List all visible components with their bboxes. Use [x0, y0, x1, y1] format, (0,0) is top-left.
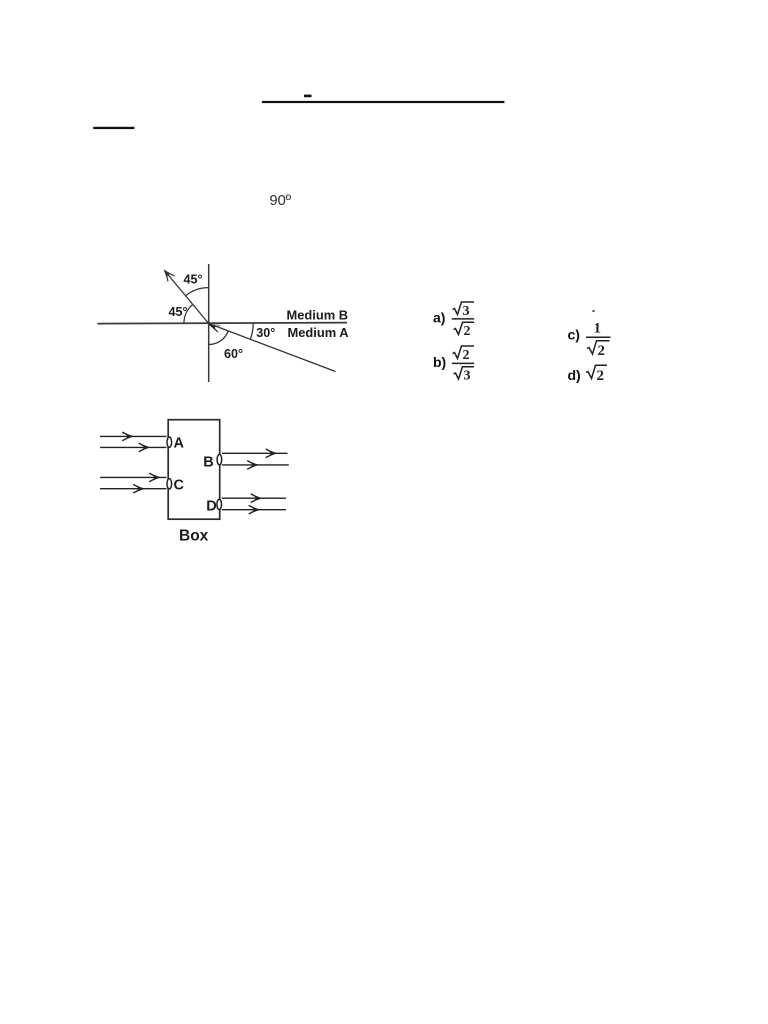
svg-text:30°: 30°: [256, 326, 275, 340]
svg-text:d): d): [568, 367, 581, 383]
normal (vertical line): [208, 264, 210, 382]
output ray 4 from lens D: [222, 509, 286, 511]
svg-text:2: 2: [463, 348, 470, 363]
input ray 4 to lens C: [100, 488, 167, 490]
svg-text:3: 3: [464, 369, 471, 384]
long horizontal rule (title underline): [262, 101, 505, 103]
refracted ray (up-left, with arrow tip): [165, 271, 209, 324]
arrowhead input ray 3: [149, 473, 161, 482]
option d value: sqrt2: [586, 365, 607, 378]
output ray 3 from lens D: [222, 497, 286, 499]
svg-text:3: 3: [463, 304, 470, 319]
option a fraction: sqrt3 over sqrt2: [452, 302, 474, 335]
svg-text:60°: 60°: [224, 347, 243, 361]
box rectangle: [168, 420, 220, 520]
svg-text:1: 1: [594, 320, 602, 336]
incident ray (from lower right): [209, 324, 336, 372]
svg-text:45°: 45°: [169, 305, 188, 319]
svg-text:90º: 90º: [270, 193, 292, 209]
lens D: [217, 499, 222, 509]
input ray 3 to lens C: [100, 476, 167, 478]
svg-text:2: 2: [597, 368, 605, 384]
svg-text:Box: Box: [179, 528, 209, 545]
lens B: [217, 454, 222, 464]
svg-text:2: 2: [598, 343, 606, 359]
svg-text:Medium B: Medium B: [287, 307, 349, 322]
arrowhead on incident ray pointing at intersection: [208, 324, 218, 330]
input ray 1 to lens A: [100, 435, 167, 437]
arrowhead output ray 2: [247, 461, 259, 470]
short horizontal rule (left): [93, 127, 134, 129]
svg-text:Medium A: Medium A: [288, 325, 349, 340]
arrowhead of refracted ray: [160, 267, 174, 282]
arrowhead input ray 2: [139, 443, 151, 452]
lens A: [167, 437, 172, 447]
interface (horizontal line): [98, 323, 348, 324]
arc 45 top (ray to normal): [186, 288, 209, 296]
svg-text:c): c): [568, 327, 580, 343]
arc 30 (horizontal right to ray): [250, 324, 253, 340]
arc 45 left (horizontal to ray): [184, 304, 193, 323]
short dash (top, above title rule): [304, 95, 312, 98]
svg-text:b): b): [433, 354, 446, 370]
output ray 2 from lens B: [222, 464, 289, 466]
arrowhead input ray 4: [133, 484, 145, 493]
svg-text:45°: 45°: [184, 273, 203, 287]
arrowhead output ray 4: [249, 505, 261, 514]
svg-text:D: D: [206, 499, 216, 515]
arc 60 (normal down to ray): [209, 331, 229, 345]
svg-text:2: 2: [464, 324, 471, 339]
svg-text:B: B: [203, 454, 213, 470]
svg-text:A: A: [174, 435, 185, 451]
arrowhead output ray 1: [266, 449, 278, 458]
arrowhead output ray 3: [251, 494, 263, 503]
option b fraction: sqrt2 over sqrt3: [452, 346, 474, 379]
input ray 2 to lens A: [100, 446, 167, 448]
svg-text:a): a): [433, 310, 445, 326]
small dot above option c: [593, 310, 595, 312]
output ray 1 from lens B: [222, 452, 288, 454]
arrowhead input ray 1: [122, 432, 134, 441]
lens C: [167, 479, 172, 489]
svg-text:C: C: [174, 477, 185, 493]
